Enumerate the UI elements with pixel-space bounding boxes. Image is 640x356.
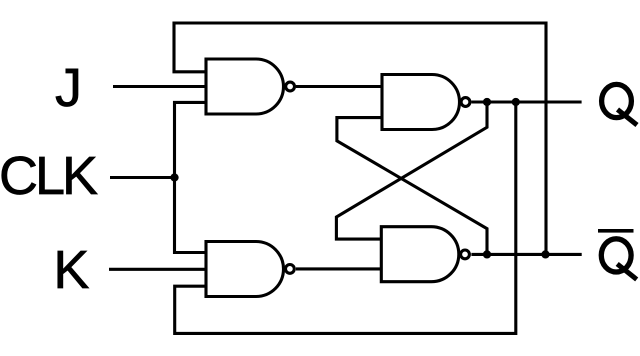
svg-text:K: K bbox=[53, 240, 89, 300]
svg-text:CLK: CLK bbox=[0, 146, 98, 206]
svg-text:J: J bbox=[55, 58, 82, 118]
